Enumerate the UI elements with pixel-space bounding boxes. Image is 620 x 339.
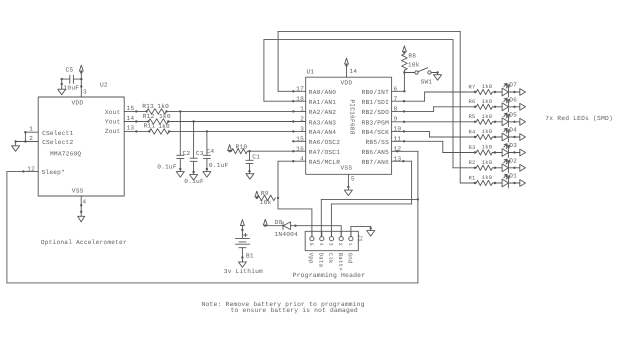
wire RA1-bus to R2 — [453, 167, 475, 169]
svg-text:RA2/AN2: RA2/AN2 — [309, 109, 336, 116]
svg-text:1: 1 — [300, 106, 304, 113]
LED D5 arrows — [504, 113, 507, 116]
svg-text:R5: R5 — [469, 113, 476, 120]
svg-text:R7: R7 — [469, 83, 476, 90]
capacitor C4 — [206, 131, 208, 155]
svg-text:D2: D2 — [509, 157, 517, 164]
svg-text:5: 5 — [351, 175, 355, 182]
svg-text:RB0/INT: RB0/INT — [362, 89, 389, 96]
svg-text:1k0: 1k0 — [482, 144, 493, 151]
svg-text:CSelect2: CSelect2 — [42, 139, 73, 146]
svg-text:Optional Accelerometer: Optional Accelerometer — [41, 239, 127, 246]
svg-text:3: 3 — [300, 126, 304, 133]
svg-text:1k0: 1k0 — [158, 123, 170, 130]
ground (D4) — [520, 134, 526, 141]
svg-text:U1: U1 — [307, 69, 315, 76]
svg-text:14: 14 — [127, 115, 135, 122]
svg-text:1k0: 1k0 — [482, 174, 493, 181]
svg-text:1k0: 1k0 — [482, 98, 493, 105]
svg-text:15: 15 — [127, 105, 135, 112]
svg-text:Gnd: Gnd — [347, 253, 354, 264]
switch SW1 — [415, 71, 418, 74]
LED D1 — [502, 179, 508, 187]
svg-text:Clk: Clk — [327, 253, 334, 264]
resistor R1 — [474, 182, 476, 184]
svg-text:D3: D3 — [509, 142, 517, 149]
IC U2 MMA7260Q body — [38, 97, 124, 196]
svg-text:2: 2 — [337, 243, 343, 246]
svg-text:C4: C4 — [207, 148, 215, 155]
wire RB4 pin10 to R4 — [392, 130, 430, 132]
resistor R3 — [474, 151, 476, 153]
resistor R10 — [230, 150, 232, 152]
wire RB7 pin13 net — [392, 160, 412, 162]
svg-text:5: 5 — [308, 243, 314, 246]
wire RA0 pin17 to D1 row — [278, 90, 306, 92]
svg-text:1k0: 1k0 — [482, 159, 493, 166]
svg-text:RA5/MCLR: RA5/MCLR — [309, 159, 340, 166]
power VDD symbol (U1 pin14) — [345, 58, 349, 64]
svg-text:1N4004: 1N4004 — [275, 231, 299, 238]
svg-text:C1: C1 — [252, 154, 260, 161]
svg-text:D8: D8 — [275, 219, 283, 226]
diode D8 1N4004 — [282, 222, 284, 230]
resistor R6 — [474, 106, 476, 108]
LED D1 arrows — [504, 174, 507, 177]
svg-text:1k0: 1k0 — [157, 103, 169, 110]
LED D7 arrows — [504, 83, 507, 86]
svg-text:R2: R2 — [469, 159, 476, 166]
LED D6 — [502, 103, 508, 111]
svg-text:R11: R11 — [144, 123, 156, 130]
wire RA1 pin18 to D2 row — [264, 100, 306, 102]
ground (C5) — [58, 89, 66, 95]
svg-text:C3: C3 — [196, 150, 204, 157]
power VDD symbol (R9) — [255, 191, 259, 197]
svg-text:1k0: 1k0 — [482, 128, 493, 135]
svg-text:Data: Data — [318, 253, 325, 268]
junction C5/VDD — [80, 78, 82, 80]
svg-text:3v Lithium: 3v Lithium — [224, 268, 263, 275]
wire MCLR to header Vpp — [278, 208, 312, 210]
svg-text:CSelect1: CSelect1 — [42, 130, 73, 137]
LED D7 — [502, 88, 508, 96]
svg-text:3: 3 — [328, 243, 334, 246]
battery B1 plus sign — [244, 234, 247, 236]
IC U1 PIC16F688 body — [306, 77, 392, 174]
ground (D2) — [520, 164, 526, 171]
svg-text:RA7/OSC1: RA7/OSC1 — [309, 149, 340, 156]
svg-text:PIC16F688: PIC16F688 — [348, 99, 355, 134]
svg-text:D1: D1 — [509, 173, 517, 180]
svg-text:1: 1 — [347, 243, 353, 246]
wire D8 cathode — [265, 225, 283, 227]
svg-text:Sleep*: Sleep* — [42, 169, 65, 176]
svg-text:Batt+: Batt+ — [337, 253, 344, 272]
svg-text:R4: R4 — [469, 128, 477, 135]
wire Zout to RA4 (node) — [168, 130, 170, 132]
ground (SW1) — [434, 75, 442, 81]
svg-text:B1: B1 — [246, 253, 254, 260]
wire R8 to SW1 node — [403, 70, 405, 91]
svg-text:RB4/SCK: RB4/SCK — [362, 129, 389, 136]
ground (U2 VSS) — [78, 216, 85, 222]
ground (D6) — [520, 103, 526, 110]
resistor R7 — [474, 91, 476, 93]
LED D4 arrows — [504, 128, 507, 131]
LED D4 — [502, 133, 508, 141]
LED D5 — [502, 118, 508, 126]
svg-text:R3: R3 — [469, 144, 476, 151]
svg-text:1k0: 1k0 — [482, 83, 493, 90]
svg-text:0.1uF: 0.1uF — [209, 162, 229, 169]
ground (CSelect) — [12, 146, 20, 152]
capacitor C1 — [249, 151, 251, 160]
wire RA0-bus to R1 — [460, 182, 475, 184]
svg-text:D6: D6 — [509, 96, 517, 103]
svg-text:R10: R10 — [236, 143, 248, 150]
svg-text:Programming Header: Programming Header — [293, 272, 366, 279]
ground (C4) — [203, 172, 211, 178]
svg-text:VSS: VSS — [72, 187, 84, 194]
svg-text:RB5/SS: RB5/SS — [366, 139, 390, 146]
wire RB2 pin8 to R6 — [392, 110, 434, 112]
svg-text:10k: 10k — [408, 62, 420, 69]
svg-text:1: 1 — [29, 126, 33, 133]
wire Xout — [124, 110, 146, 112]
junction R9/MCLR — [277, 197, 279, 199]
capacitor C5 — [73, 78, 81, 80]
svg-text:D7: D7 — [509, 82, 517, 89]
svg-text:Zout: Zout — [105, 128, 121, 135]
LED D3 — [502, 149, 508, 157]
svg-text:7x Red LEDs (SMD): 7x Red LEDs (SMD) — [545, 115, 613, 122]
svg-text:R1: R1 — [469, 174, 477, 181]
svg-text:R13: R13 — [142, 103, 154, 110]
ground (D3) — [520, 149, 526, 156]
wire SW1 to ground — [431, 72, 437, 74]
ground (D5) — [520, 118, 526, 125]
wire to ground (CSelect) — [15, 142, 17, 146]
ground (B1) — [238, 262, 246, 268]
wire Zout — [124, 130, 149, 132]
svg-text:RB3/PGM: RB3/PGM — [362, 119, 389, 126]
U1 pin15 stub — [293, 140, 305, 142]
wire Sleep* net — [7, 170, 38, 172]
LED D3 arrows — [504, 144, 507, 147]
junction RB6 net — [417, 198, 419, 200]
svg-text:RB2/SDO: RB2/SDO — [362, 109, 389, 116]
svg-text:to ensure battery is not damag: to ensure battery is not damaged — [231, 307, 358, 314]
svg-text:13: 13 — [127, 125, 135, 132]
ground (U1 VSS) — [344, 190, 352, 196]
wire U1 VSS pin5 — [347, 174, 349, 190]
wire D8 anode to header Vdd — [291, 225, 342, 227]
wire RB6 pin12 net — [392, 150, 418, 152]
svg-text:14: 14 — [349, 68, 357, 75]
svg-text:1k0: 1k0 — [482, 113, 493, 120]
svg-text:RA1/AN1: RA1/AN1 — [309, 99, 336, 106]
svg-text:RB1/SDI: RB1/SDI — [362, 99, 389, 106]
wire Yout — [124, 121, 148, 123]
resistor R5 — [474, 121, 476, 123]
svg-text:2: 2 — [29, 135, 33, 142]
ground (C2) — [176, 172, 184, 178]
battery B1 — [235, 237, 249, 239]
ground (C3) — [190, 175, 198, 181]
power VDD symbol (R8) — [402, 46, 406, 52]
svg-text:Yout: Yout — [105, 119, 121, 126]
power VDD symbol (R10) — [228, 145, 232, 151]
svg-text:16: 16 — [296, 145, 304, 152]
svg-text:RA6/OSC2: RA6/OSC2 — [309, 139, 340, 146]
svg-text:R8: R8 — [408, 53, 416, 60]
resistor R8 — [402, 54, 408, 70]
svg-text:RA0/AN0: RA0/AN0 — [309, 89, 336, 96]
ground (C1) — [246, 174, 254, 180]
svg-text:R12: R12 — [143, 113, 155, 120]
wire U2 CSelect2 pin2 — [16, 141, 39, 143]
capacitor C3 — [193, 122, 195, 159]
wire R10 to OSC1 — [248, 150, 250, 152]
svg-text:10uF: 10uF — [64, 84, 80, 91]
svg-text:R6: R6 — [469, 98, 476, 105]
svg-text:Xout: Xout — [105, 109, 121, 116]
wire Xout to RA2 (node) — [165, 110, 167, 112]
svg-text:4: 4 — [300, 155, 304, 162]
svg-text:VSS: VSS — [341, 165, 353, 172]
wire RB5 pin11 to R3 — [392, 140, 443, 142]
ground (D7) — [520, 89, 526, 96]
wire J1 pin1 to ground — [350, 226, 352, 236]
svg-text:U2: U2 — [100, 82, 108, 89]
svg-text:4: 4 — [318, 243, 324, 246]
resistor R2 — [474, 167, 476, 169]
svg-text:10k: 10k — [260, 199, 272, 206]
resistor R11 — [149, 129, 169, 134]
svg-text:0.1uF: 0.1uF — [157, 164, 177, 171]
svg-text:4: 4 — [82, 199, 86, 206]
svg-text:C2: C2 — [183, 150, 191, 157]
resistor R9 — [257, 195, 276, 201]
power VDD symbol (battery B1) — [240, 220, 244, 226]
LED D2 — [502, 164, 508, 172]
LED D2 arrows — [504, 159, 507, 162]
svg-text:SW1: SW1 — [421, 79, 433, 86]
resistor R13 — [147, 109, 167, 114]
J1 pin circles and stubs — [310, 237, 314, 241]
svg-text:RB6/AN5: RB6/AN5 — [362, 149, 389, 156]
wire RA5/MCLR to vertical — [278, 160, 306, 162]
svg-text:Vpp: Vpp — [308, 253, 315, 264]
svg-text:2: 2 — [300, 116, 304, 123]
resistor R4 — [474, 136, 476, 138]
svg-text:MMA7260Q: MMA7260Q — [50, 151, 81, 158]
power VDD symbol (U2 pin3) — [79, 65, 83, 71]
wire Yout to RA3 (node) — [167, 120, 169, 122]
ground (J1 pin1) — [367, 231, 375, 237]
svg-text:C5: C5 — [66, 67, 74, 74]
wire U2 VSS pin4 — [80, 196, 82, 216]
svg-text:J1: J1 — [357, 235, 364, 243]
wire node to SW1 — [404, 72, 414, 74]
svg-text:R9: R9 — [261, 190, 269, 197]
svg-text:D4: D4 — [509, 127, 517, 134]
ground (D1) — [520, 180, 526, 187]
connector J1 body — [305, 231, 358, 250]
svg-text:RA4/AN4: RA4/AN4 — [309, 129, 336, 136]
LED D6 arrows — [504, 98, 507, 101]
svg-text:3: 3 — [83, 88, 87, 95]
svg-text:RA3/AN3: RA3/AN3 — [309, 119, 336, 126]
svg-text:VDD: VDD — [341, 79, 353, 86]
wire RB0/INT pin6 — [392, 90, 405, 92]
svg-text:RB7/AN6: RB7/AN6 — [362, 159, 389, 166]
svg-text:D5: D5 — [509, 111, 517, 118]
wire RB1 pin7 to R7 — [392, 100, 425, 102]
svg-text:1k0: 1k0 — [159, 113, 171, 120]
wire RB3 pin9 to R5 — [392, 121, 475, 123]
resistor R12 — [148, 119, 168, 124]
power VDD symbol (D8) — [263, 219, 267, 225]
svg-text:VDD: VDD — [72, 100, 84, 107]
wire U2 CSelect1 pin1 — [25, 131, 38, 133]
capacitor C2 — [179, 111, 181, 155]
